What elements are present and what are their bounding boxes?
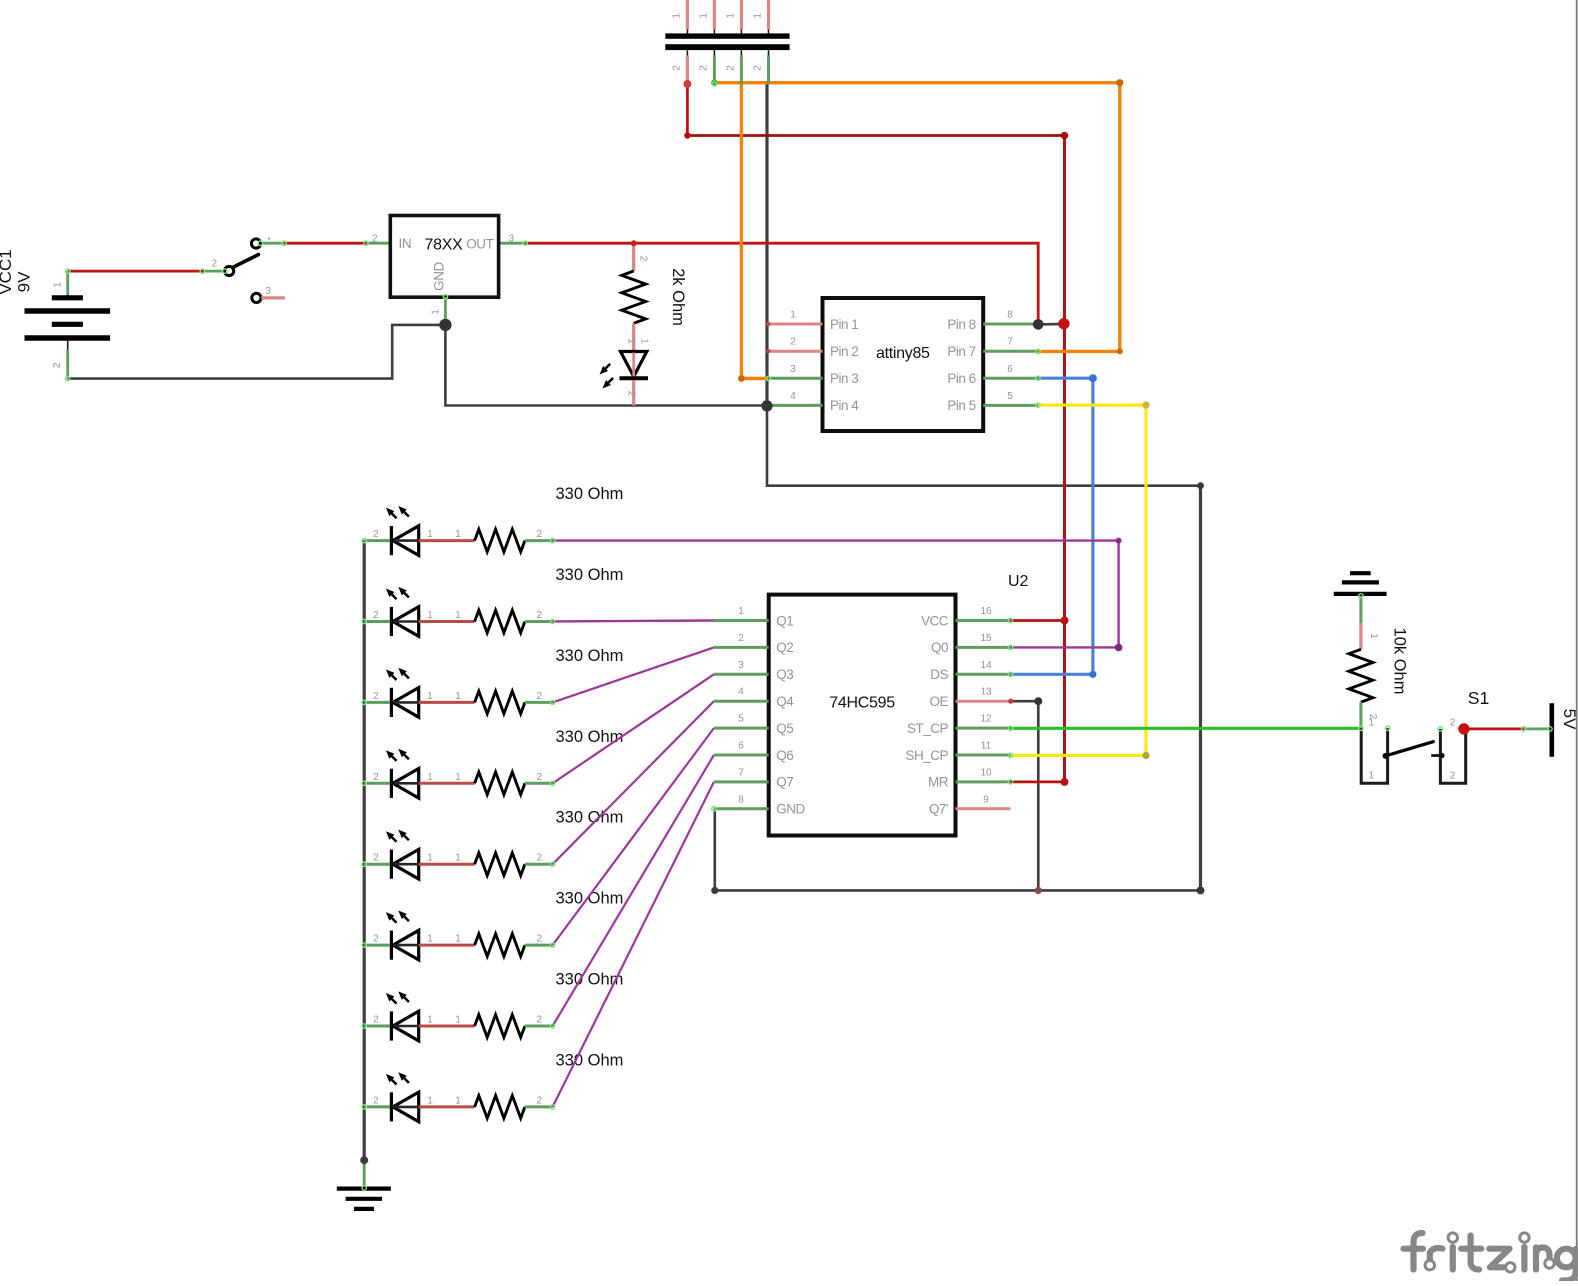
74HC595 pin ST_CP stub [956, 727, 1011, 730]
74HC595 pin name Q7 [776, 775, 793, 790]
svg-text:1: 1 [53, 282, 64, 288]
svg-text:330 Ohm: 330 Ohm [556, 890, 624, 908]
pin number 1 (indicator LED, rotated) [639, 338, 650, 344]
svg-text:Pin 5: Pin 5 [947, 398, 975, 413]
svg-text:2: 2 [212, 259, 218, 270]
svg-text:1: 1 [455, 691, 461, 702]
svg-text:1: 1 [698, 13, 709, 19]
wire LED row8 resistor to 74HC595 Q7 (purple diagonal) [553, 782, 714, 1107]
svg-text:2: 2 [537, 772, 543, 783]
pushbutton S1 right contact bracket [1440, 729, 1465, 783]
svg-text:15: 15 [980, 633, 992, 644]
74HC595 pin number 10 [980, 767, 992, 778]
LED row 2 emission arrows [386, 587, 409, 599]
74HC595 pin name OE [929, 694, 948, 709]
wire 74HC595 ST_CP to 10k resistor and S1 (bright green) [1011, 727, 1362, 730]
attiny85 pin number 4 [790, 391, 796, 402]
svg-text:2: 2 [698, 65, 709, 71]
svg-text:1: 1 [427, 934, 433, 945]
wire switch common to 78XX IN (red) [284, 242, 366, 245]
wire capacitor C2 pin2 to attiny Pin 7 (orange) [714, 83, 1119, 352]
pin label 1 (battery) [53, 282, 64, 288]
74HC595 pin number 7 [738, 767, 744, 778]
svg-text:2: 2 [373, 934, 379, 945]
svg-text:1: 1 [455, 529, 461, 540]
74HC595 pin name DS [930, 667, 948, 682]
74HC595 pin name MR [928, 775, 949, 790]
resistor 10k Ohm [1349, 649, 1373, 728]
svg-text:6: 6 [1007, 364, 1013, 375]
svg-text:5: 5 [1007, 391, 1013, 402]
pin label 2 (battery) [52, 362, 63, 368]
attiny85 pin name Pin 1 [830, 317, 858, 332]
74HC595 pin name Q5 [776, 721, 793, 736]
value label "330 Ohm" for resistor row 4 [556, 728, 624, 746]
svg-text:IN: IN [399, 236, 412, 251]
LED row 7 emission arrows [386, 991, 409, 1003]
74HC595 pin name Q3 [776, 667, 793, 682]
svg-text:2: 2 [373, 772, 379, 783]
svg-text:2: 2 [790, 337, 796, 348]
attiny85 Pin 6 stub [983, 377, 1038, 380]
pin labels row 2 [373, 610, 542, 621]
pin labels row 6 [373, 934, 542, 945]
pin number 1 (C4, rotated) [753, 13, 764, 19]
74HC595 pin number 5 [738, 714, 744, 725]
LED row 5 [364, 849, 474, 879]
pin number 2 (C1, rotated) [671, 65, 682, 71]
pin label IN [399, 236, 412, 251]
svg-text:1: 1 [455, 610, 461, 621]
attiny85 Pin 5 stub [983, 404, 1038, 407]
74HC595 pin Q7' stub [956, 807, 1011, 810]
svg-text:1: 1 [725, 13, 736, 19]
wire jumper attiny Pin8 dot to red vertical (black) [1038, 323, 1064, 326]
svg-text:Q5: Q5 [776, 721, 793, 736]
wire red vertical into 74HC595 MR [1011, 781, 1065, 784]
pin labels row 4 [373, 772, 542, 783]
label 78XX [425, 237, 464, 254]
pin labels row 1 [373, 529, 542, 540]
LED row 5 emission arrows [386, 830, 409, 842]
74HC595 pin name Q2 [776, 640, 793, 655]
74HC595 pin number 4 [738, 687, 744, 698]
74HC595 pin Q2 stub [714, 646, 769, 649]
attiny85 Pin 1 stub [768, 323, 822, 326]
svg-text:1: 1 [431, 309, 442, 315]
svg-text:1: 1 [455, 934, 461, 945]
battery VCC1 9V [25, 271, 111, 379]
svg-text:330 Ohm: 330 Ohm [556, 1051, 624, 1069]
attiny85 Pin 8 stub [983, 323, 1038, 326]
svg-text:330 Ohm: 330 Ohm [556, 485, 624, 503]
wire LED row7 resistor to 74HC595 Q6 (purple diagonal) [553, 755, 714, 1026]
wire 74HC595 GND pin down to ground bus (gray) [713, 809, 716, 891]
svg-text:2: 2 [537, 934, 543, 945]
svg-text:1: 1 [455, 853, 461, 864]
svg-text:1: 1 [455, 1015, 461, 1026]
attiny85 pin name Pin 6 [947, 371, 975, 386]
svg-text:330 Ohm: 330 Ohm [556, 647, 624, 665]
value label "330 Ohm" for resistor row 1 [556, 485, 624, 503]
74HC595 pin name Q7' [929, 802, 948, 817]
wire 78XX GND down and right to attiny Pin 4 (gray, passes LED cathode) [445, 325, 767, 406]
S1 pin labels [1369, 718, 1456, 782]
attiny85 pin number 1 [790, 310, 796, 321]
74HC595 pin Q4 stub [714, 700, 769, 703]
svg-text:2: 2 [753, 65, 764, 71]
pin number 2 (78XX IN) [372, 234, 378, 245]
wire bottom ground bus (gray) [715, 889, 1201, 892]
svg-text:1: 1 [1369, 718, 1375, 729]
svg-text:1: 1 [427, 529, 433, 540]
svg-text:Q0: Q0 [931, 640, 948, 655]
stub 78XX OUT (green) [499, 242, 526, 245]
wire battery positive to switch pin 2 (red) [68, 270, 205, 273]
svg-text:Pin 2: Pin 2 [830, 344, 858, 359]
74HC595 pin number 9 [983, 794, 989, 805]
pin label OUT [466, 237, 493, 252]
resistor 330 Ohm row 8 [475, 1096, 553, 1119]
svg-text:3: 3 [790, 364, 796, 375]
attiny85 pin name Pin 5 [947, 398, 975, 413]
svg-text:5V: 5V [1560, 709, 1578, 730]
svg-text:4: 4 [738, 687, 744, 698]
svg-text:2: 2 [1450, 771, 1456, 782]
attiny85 Pin 7 stub [983, 350, 1038, 353]
svg-text:2: 2 [52, 362, 63, 368]
attiny85 pin number 3 [790, 364, 796, 375]
left LED cathode bus (gray vertical) [363, 540, 366, 1160]
pin number 1 (78XX GND, rotated) [431, 309, 442, 315]
switch SW1 pin 2 terminal [225, 266, 234, 275]
svg-text:1: 1 [427, 772, 433, 783]
svg-text:1: 1 [1369, 771, 1375, 782]
LED row 2 [364, 607, 474, 637]
svg-text:SH_CP: SH_CP [905, 748, 948, 763]
svg-text:2: 2 [373, 610, 379, 621]
74HC595 pin VCC stub [956, 619, 1011, 622]
svg-text:Pin 4: Pin 4 [830, 398, 859, 413]
74HC595 pin SH_CP stub [956, 754, 1011, 757]
svg-text:1: 1 [427, 610, 433, 621]
svg-text:6: 6 [738, 741, 744, 752]
svg-text:12: 12 [980, 714, 992, 725]
stub 5V (green) [1524, 728, 1550, 731]
svg-text:OUT: OUT [466, 237, 493, 252]
74HC595 pin OE stub [956, 700, 1011, 703]
wire dark red vertical: top to attiny Pin8 to 74HC595 MR [1063, 136, 1066, 782]
attiny85 pin name Pin 3 [830, 371, 858, 386]
wire right gray vertical down to ground bus [1199, 486, 1202, 891]
74HC595 pin Q0 stub [956, 646, 1011, 649]
svg-text:Q1: Q1 [776, 613, 793, 628]
svg-text:VCC: VCC [921, 613, 949, 628]
wire capacitor C1 pin2 down (red) [686, 84, 689, 136]
svg-text:11: 11 [981, 741, 992, 752]
capacitor bus bar bottom plate [665, 44, 789, 50]
svg-text:2: 2 [738, 633, 744, 644]
pin number 1 (C3, rotated) [725, 13, 736, 19]
svg-text:MR: MR [928, 775, 949, 790]
74HC595 pin number 15 [980, 633, 992, 644]
pin label GND (rotated) [432, 261, 447, 290]
svg-text:1: 1 [790, 310, 796, 321]
svg-text:3: 3 [738, 660, 744, 671]
capacitor bus bar top plate [665, 33, 789, 38]
svg-text:3: 3 [266, 286, 272, 297]
net label 5V (rotated) [1560, 709, 1578, 730]
attiny85 pin number 6 [1007, 364, 1013, 375]
attiny85 pin name Pin 8 [947, 317, 975, 332]
label S1 [1468, 688, 1489, 708]
LED row 3 emission arrows [386, 668, 409, 680]
svg-text:2: 2 [537, 1015, 543, 1026]
svg-text:2: 2 [537, 691, 543, 702]
pin number 2 (2k resistor, rotated) [638, 256, 649, 262]
attiny85 Pin 3 stub [768, 377, 822, 380]
wire attiny Pin4 junction down then right (gray) [767, 406, 1201, 486]
wire attiny Pin 6 to 74HC595 DS (blue) [1011, 378, 1093, 674]
pin label 3 (switch) [266, 286, 272, 297]
power symbol 5V [1550, 703, 1555, 757]
74HC595 pin Q5 stub [714, 727, 769, 730]
wire LED row1 resistor to 74HC595 Q0 (purple) [553, 541, 1119, 648]
svg-text:VCC1: VCC1 [0, 249, 15, 294]
stub switch pin 2 (green) [205, 270, 225, 273]
svg-text:U2: U2 [1008, 573, 1029, 590]
svg-text:2: 2 [537, 853, 543, 864]
74HC595 pin Q3 stub [714, 673, 769, 676]
svg-text:1: 1 [427, 1095, 433, 1106]
pushbutton S1 left contact bracket [1361, 728, 1387, 783]
LED row 6 [364, 930, 474, 960]
wire C1 net right along top (dark red) [687, 134, 1064, 137]
svg-text:1: 1 [671, 13, 682, 19]
wire attiny Pin 5 to 74HC595 SH_CP (yellow) [1011, 405, 1147, 755]
74HC595 pin name Q1 [776, 613, 793, 628]
LED row 8 emission arrows [386, 1072, 409, 1084]
svg-text:2k Ohm: 2k Ohm [669, 268, 687, 326]
LED D1 indicator (pointing down) [620, 352, 649, 406]
wire LED row3 resistor to 74HC595 Q2 (purple diagonal) [553, 647, 714, 702]
LED row 1 [364, 526, 474, 556]
74HC595 pin number 3 [738, 660, 744, 671]
LED D1 emission arrows [600, 364, 614, 389]
svg-text:1: 1 [427, 691, 433, 702]
attiny85 pin number 7 [1007, 337, 1013, 348]
74HC595 pin number 12 [980, 714, 992, 725]
svg-text:2: 2 [671, 65, 682, 71]
74HC595 pin MR stub [956, 780, 1011, 783]
svg-text:Q2: Q2 [776, 640, 793, 655]
value label 2k Ohm (rotated) [669, 268, 687, 326]
attiny85 pin name Pin 7 [947, 344, 975, 359]
74HC595 pin number 14 [980, 660, 992, 671]
switch SW1 pin 3 terminal [252, 293, 261, 302]
LED row 4 [364, 769, 474, 799]
window border right edge [1576, 0, 1578, 1281]
svg-text:14: 14 [980, 660, 992, 671]
pushbutton S1 fixed contact tick [1431, 753, 1444, 758]
svg-text:2: 2 [373, 1095, 379, 1106]
svg-text:attiny85: attiny85 [876, 345, 930, 362]
wire LED row6 resistor to 74HC595 Q5 (purple diagonal) [553, 728, 714, 945]
pin number 1 (C1, rotated) [671, 13, 682, 19]
svg-text:9: 9 [983, 794, 989, 805]
74HC595 pin number 1 [738, 606, 744, 617]
wire 74HC595 OE to ground bus (black) [1011, 701, 1039, 890]
svg-text:1: 1 [738, 606, 744, 617]
74HC595 pin Q1 stub [714, 619, 769, 622]
wire 74HC595 VCC to red vertical [1011, 619, 1065, 622]
switch SW1 common terminal [251, 239, 260, 248]
74HC595 pin number 6 [738, 741, 744, 752]
svg-text:Pin 8: Pin 8 [947, 317, 975, 332]
wire 78XX OUT right then down to attiny Pin 8 (red) [525, 243, 1038, 319]
74HC595 pin name SH_CP [905, 748, 948, 763]
ground (right, above 10k resistor) [1334, 573, 1387, 649]
wire LED row2 resistor to 74HC595 Q1 (purple) [553, 619, 714, 622]
svg-text:7: 7 [1007, 337, 1013, 348]
resistor 2k Ohm [622, 245, 646, 351]
fritzing watermark logo [1404, 1233, 1576, 1281]
svg-text:Pin 6: Pin 6 [947, 371, 975, 386]
resistor 330 Ohm row 4 [475, 772, 553, 795]
attiny85 pin name Pin 2 [830, 344, 858, 359]
IC U2 74HC595 box [769, 595, 956, 836]
capacitor C3 leads and pins [740, 0, 743, 84]
pin number 3 (78XX OUT) [509, 234, 515, 245]
pin number 2 (C2, rotated) [698, 65, 709, 71]
stub switch pin 3 (salmon, unconnected) [261, 296, 285, 299]
wire S1 to 5V (red) [1466, 728, 1524, 731]
attiny85 Pin 4 stub [768, 404, 822, 407]
pin number 2 (C4, rotated) [753, 65, 764, 71]
svg-text:1: 1 [753, 13, 764, 19]
pin labels row 8 [373, 1095, 542, 1106]
pin labels row 3 [373, 691, 542, 702]
LED row 4 emission arrows [386, 749, 409, 761]
74HC595 pin number 13 [980, 687, 992, 698]
74HC595 pin number 8 [738, 794, 744, 805]
svg-text:1: 1 [626, 338, 637, 344]
pin number 1 (2k resistor, rotated) [626, 338, 637, 344]
label U2 [1008, 573, 1029, 590]
svg-text:S1: S1 [1468, 688, 1489, 708]
attiny85 pin number 8 [1007, 310, 1013, 321]
stub 78XX IN (green) [366, 242, 390, 245]
svg-text:330 Ohm: 330 Ohm [556, 566, 624, 584]
svg-text:Q7: Q7 [776, 775, 793, 790]
switch SW1 lever [233, 255, 259, 268]
74HC595 pin number 11 [981, 741, 992, 752]
74HC595 pin Q6 stub [714, 754, 769, 757]
attiny85 pin number 5 [1007, 391, 1013, 402]
svg-text:2: 2 [1450, 718, 1456, 729]
value label "330 Ohm" for resistor row 6 [556, 890, 624, 908]
stub 78XX GND (green) [444, 297, 447, 325]
svg-text:2: 2 [537, 610, 543, 621]
svg-text:13: 13 [980, 687, 992, 698]
capacitor C2 leads and pins [713, 0, 716, 84]
wire capacitor C4 pin2 down to attiny Pin 4 junction (gray vertical) [765, 84, 768, 406]
value label 10k Ohm (rotated) [1391, 628, 1409, 695]
svg-text:GND: GND [776, 802, 805, 817]
LED row 3 [364, 688, 474, 718]
value label "330 Ohm" for resistor row 3 [556, 647, 624, 665]
resistor 330 Ohm row 7 [475, 1015, 553, 1038]
svg-text:3: 3 [509, 234, 515, 245]
svg-text:Pin 7: Pin 7 [947, 344, 975, 359]
stub switch common (green) [260, 242, 284, 245]
capacitor C1 leads and pins [686, 0, 689, 84]
svg-text:2: 2 [725, 65, 736, 71]
74HC595 pin GND stub [714, 807, 769, 810]
svg-text:7: 7 [738, 767, 744, 778]
resistor 330 Ohm row 1 [475, 529, 553, 552]
74HC595 pin name VCC [921, 613, 949, 628]
value label "330 Ohm" for resistor row 5 [556, 809, 624, 827]
svg-text:1: 1 [455, 772, 461, 783]
capacitor C4 leads and pins [767, 0, 770, 84]
svg-text:Pin 3: Pin 3 [830, 371, 858, 386]
74HC595 pin name Q4 [776, 694, 794, 709]
svg-text:8: 8 [1007, 310, 1013, 321]
svg-text:DS: DS [930, 667, 948, 682]
svg-text:2: 2 [373, 1015, 379, 1026]
pin labels row 5 [373, 853, 542, 864]
svg-text:2: 2 [373, 529, 379, 540]
svg-text:Q4: Q4 [776, 694, 794, 709]
LED row 6 emission arrows [386, 911, 409, 923]
value label "330 Ohm" for resistor row 8 [556, 1051, 624, 1069]
svg-text:Q6: Q6 [776, 748, 793, 763]
value label "330 Ohm" for resistor row 2 [556, 566, 624, 584]
svg-text:10k Ohm: 10k Ohm [1391, 628, 1409, 695]
LED row 7 [364, 1011, 474, 1041]
svg-text:8: 8 [738, 794, 744, 805]
svg-text:330 Ohm: 330 Ohm [556, 809, 624, 827]
74HC595 pin name ST_CP [907, 721, 949, 736]
wire LED row4 resistor to 74HC595 Q3 (purple diagonal) [553, 674, 714, 783]
value label "330 Ohm" for resistor row 7 [556, 971, 624, 989]
LED row 8 [364, 1092, 474, 1122]
pin number 2 (indicator LED, rotated) [626, 391, 637, 397]
pin number 2 (10k resistor, rotated) [1367, 714, 1378, 720]
svg-text:2: 2 [638, 256, 649, 262]
label attiny85 [876, 345, 930, 362]
svg-text:1: 1 [427, 853, 433, 864]
svg-text:16: 16 [980, 606, 992, 617]
svg-text:2: 2 [537, 529, 543, 540]
attiny85 pin name Pin 4 [830, 398, 859, 413]
resistor 330 Ohm row 6 [475, 934, 553, 957]
svg-text:10: 10 [980, 767, 992, 778]
svg-text:OE: OE [929, 694, 948, 709]
label 74HC595 [829, 695, 895, 712]
74HC595 pin name Q6 [776, 748, 793, 763]
svg-text:1: 1 [1368, 633, 1379, 639]
svg-text:2: 2 [373, 853, 379, 864]
IC attiny85 box [823, 298, 984, 431]
pin labels row 7 [373, 1015, 542, 1026]
svg-text:1: 1 [639, 338, 650, 344]
wire capacitor C3 pin2 to attiny Pin 3 (orange) [741, 84, 768, 379]
74HC595 pin number 16 [980, 606, 992, 617]
svg-text:5: 5 [738, 714, 744, 725]
svg-text:2: 2 [626, 391, 637, 397]
